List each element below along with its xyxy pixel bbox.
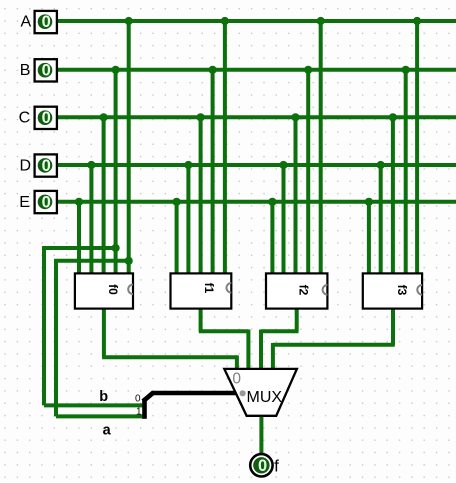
wire f0 col B [114,70,118,275]
junction f2-D [279,161,287,169]
wire C horizontal [58,115,456,119]
svg-text:1: 1 [136,407,142,418]
junction f0-D [87,161,95,169]
wire f3 col A [415,21,419,275]
wire f0 col E [77,202,81,275]
splitter ba [143,392,154,418]
wire f0 to mux horizontal [102,355,237,359]
junction f0-C [100,113,108,121]
wire f1 col A [223,21,227,275]
wire f1 output down [199,309,203,332]
wire a tap vertical [54,259,58,416]
svg-text:a: a [103,423,112,439]
svg-text:0: 0 [42,13,51,31]
wire b tap vertical [42,246,46,405]
junction f0-E [75,198,83,206]
svg-text:0: 0 [232,370,241,387]
wire f2 col D [282,165,286,275]
wire f2 output down [295,309,299,332]
svg-text:B: B [20,62,31,79]
svg-text:0: 0 [42,109,51,127]
wire B horizontal [58,68,456,72]
svg-text:E: E [19,194,30,211]
wire b tap horizontal [42,246,115,250]
wire f1 to mux horizontal [199,329,249,333]
svg-text:0: 0 [42,62,51,80]
svg-text:f1: f1 [202,283,216,294]
wire f2 to mux down [259,330,263,371]
pin C [35,107,57,129]
svg-text:A: A [20,13,31,30]
wire f0 col D [89,165,93,275]
wire f1 to mux down [246,330,250,371]
wire A horizontal [58,19,456,23]
wire f0 output down [102,309,106,358]
pin B [35,59,57,81]
wire f3 to mux down [271,343,275,370]
wire b to splitter [44,403,146,407]
subcircuit f1 [171,273,232,308]
wire f3 col C [391,117,395,275]
junction f3-E [365,198,373,206]
wire f1 col B [211,70,215,275]
wire f3 col B [404,70,408,275]
svg-text:f3: f3 [395,285,409,296]
svg-text:MUX: MUX [247,389,283,406]
wire a tap horizontal [54,259,129,263]
svg-text:C: C [19,110,31,127]
wire D horizontal [58,163,456,167]
wire f1 col D [186,165,190,275]
bus splitter to mux [152,391,242,396]
svg-text:0: 0 [42,157,51,175]
wire a to splitter [56,414,146,418]
svg-text:f: f [274,456,279,475]
junction f2-C [291,113,299,121]
junction f3-C [389,113,397,121]
junction f0-B [112,66,120,74]
output pin f [250,454,272,476]
junction f1-C [197,113,205,121]
wire f2 col E [270,202,274,275]
junction a-A [125,257,133,265]
wire E horizontal [58,200,456,204]
junction f2-A [317,17,325,25]
wire f2 col C [294,117,298,275]
junction f2-B [304,66,312,74]
subcircuit f0 [75,273,133,308]
subcircuit f3 [363,273,422,308]
svg-text:D: D [20,157,32,174]
wire f0 to mux down [235,355,239,370]
wire f3 col D [379,165,383,275]
wire mux output [259,416,263,454]
svg-text:0: 0 [42,193,51,211]
junction f3-D [377,161,385,169]
wire f2 to mux horizontal [261,329,299,333]
junction f2-E [268,198,276,206]
pin D [35,154,57,176]
wire f0 col C [102,117,106,275]
wire f0 col A [127,21,131,275]
wire f2 col A [319,21,323,275]
junction f3-B [402,66,410,74]
subcircuit f2 [266,273,327,308]
svg-text:0: 0 [258,457,267,475]
svg-text:f2: f2 [296,285,310,296]
svg-text:0: 0 [135,394,141,405]
wire f3 col E [367,202,371,275]
wire f3 output down [391,309,395,345]
junction f1-A [221,17,229,25]
junction f0-A [125,17,133,25]
junction f3-A [413,17,421,25]
junction f1-E [173,198,181,206]
pin A [35,11,57,33]
wire f3 to mux horizontal [273,343,395,347]
mux U1 [224,369,297,416]
junction b-B [112,244,120,252]
junction f1-D [184,161,192,169]
svg-text:f0: f0 [106,284,120,295]
svg-text:b: b [99,389,108,405]
junction f1-B [209,66,217,74]
wire f2 col B [306,70,310,275]
pin E [35,191,57,213]
wire f1 col C [199,117,203,275]
wire f1 col E [175,202,179,275]
